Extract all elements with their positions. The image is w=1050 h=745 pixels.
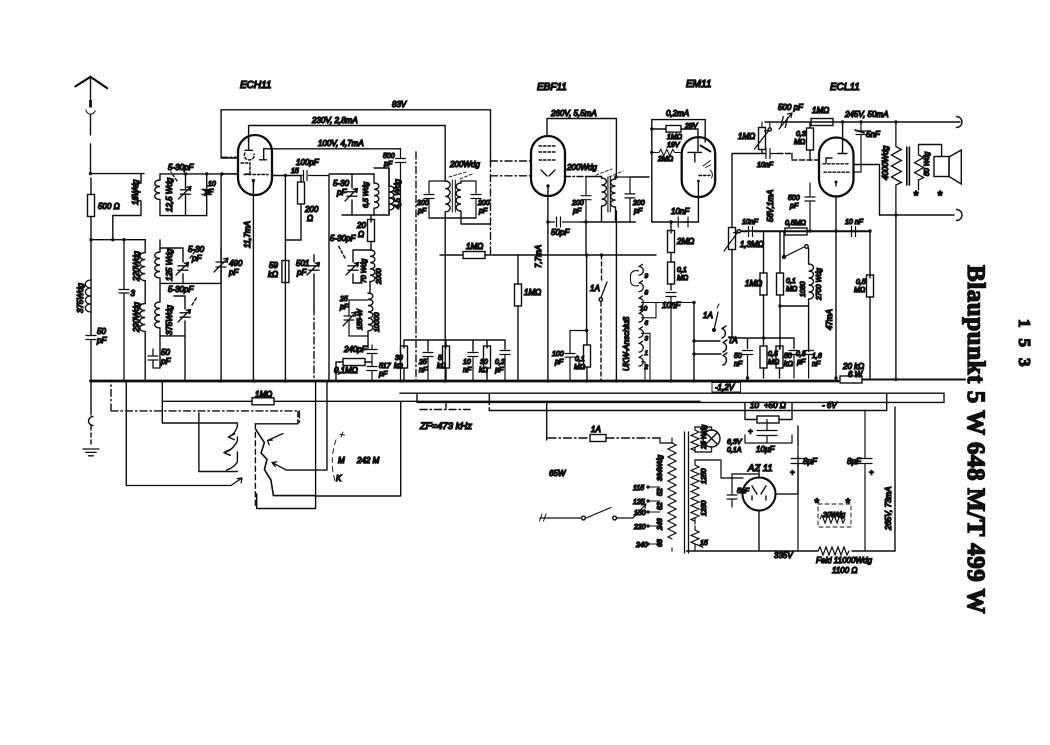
svg-text:1MΩ: 1MΩ bbox=[466, 242, 483, 251]
svg-text:290Wdg: 290Wdg bbox=[132, 302, 141, 333]
junction dot EM bbox=[669, 220, 672, 223]
wire vertical gang-left bbox=[220, 174, 222, 381]
svg-text:EBF11: EBF11 bbox=[537, 82, 567, 93]
wire bottom of input block bbox=[160, 215, 207, 217]
svg-text:Blaupunkt 5 W 648 M/T 499 W: Blaupunkt 5 W 648 M/T 499 W bbox=[962, 265, 989, 614]
svg-text:5-30: 5-30 bbox=[188, 245, 205, 254]
wire avc corner down bbox=[284, 176, 286, 382]
connector pin 8 bbox=[639, 281, 643, 292]
wire ECH11 cathode down bbox=[252, 181, 254, 381]
svg-text:10 nF: 10 nF bbox=[845, 219, 864, 226]
tube EBF11 bbox=[531, 136, 565, 196]
resistor 0.5M bottom bbox=[760, 346, 767, 368]
svg-text:65W: 65W bbox=[549, 469, 567, 478]
wire junction row bbox=[91, 239, 145, 241]
antenna bbox=[75, 77, 107, 174]
svg-text:8µF: 8µF bbox=[847, 457, 862, 466]
svg-text:kΩ: kΩ bbox=[394, 363, 404, 370]
wire volume wiper to grid cap bbox=[732, 154, 766, 228]
svg-text:10nF: 10nF bbox=[671, 207, 690, 216]
capacitor 50pF coupling bbox=[548, 217, 582, 227]
svg-text:pF: pF bbox=[572, 208, 582, 215]
IF transformer 1 bbox=[416, 160, 491, 381]
capacitor 10uF bbox=[745, 420, 792, 444]
resistor 0.1M out bbox=[777, 273, 784, 295]
resistor 20k 6W on bus bbox=[840, 376, 862, 383]
svg-text:230V, 2,8mA: 230V, 2,8mA bbox=[311, 116, 358, 125]
wire B+ top line bbox=[765, 121, 960, 123]
svg-text:ZF=473 kHz: ZF=473 kHz bbox=[419, 421, 472, 432]
svg-text:9: 9 bbox=[645, 273, 649, 280]
connector pin 9 bbox=[639, 264, 643, 275]
capacitor 100pF bbox=[304, 171, 330, 181]
svg-text:83V: 83V bbox=[392, 100, 407, 109]
svg-text:200Wdg: 200Wdg bbox=[566, 163, 597, 172]
wire grid dash ECL bbox=[778, 154, 819, 161]
ECH11 cathode dot bbox=[252, 179, 255, 182]
svg-text:MΩ: MΩ bbox=[854, 287, 866, 294]
svg-text:Ω: Ω bbox=[307, 214, 313, 223]
capacitor 50nF bottom bbox=[743, 351, 753, 379]
svg-text:pF: pF bbox=[191, 254, 202, 263]
osc coil 4.5Wdg bbox=[389, 168, 394, 215]
svg-text:1MΩ: 1MΩ bbox=[255, 390, 272, 399]
svg-text:2: 2 bbox=[644, 364, 649, 371]
svg-text:50: 50 bbox=[161, 348, 170, 357]
wire 100V line bbox=[264, 148, 401, 150]
capacitor 10nF row bbox=[749, 227, 753, 237]
resistor 30k b bbox=[484, 346, 491, 368]
svg-text:260V, 5,5mA: 260V, 5,5mA bbox=[550, 109, 597, 118]
svg-text:µF: µF bbox=[797, 359, 806, 366]
svg-text:pF: pF bbox=[96, 336, 107, 345]
connector pin 3 bbox=[639, 327, 643, 338]
svg-text:UKW-Anschluß: UKW-Anschluß bbox=[622, 316, 631, 371]
svg-text:25: 25 bbox=[339, 296, 348, 303]
capacitor 10nF row bbox=[468, 353, 478, 382]
wire IF2 sec drop bbox=[586, 255, 588, 331]
svg-text:5-30: 5-30 bbox=[333, 179, 350, 188]
resistor 50k bottom bbox=[776, 346, 783, 368]
coil 125Wdg bbox=[155, 240, 160, 283]
secondary HV winding bbox=[691, 460, 699, 524]
svg-text:56V,1mA: 56V,1mA bbox=[766, 190, 775, 222]
resistor 30k bbox=[401, 346, 408, 368]
svg-text:1A: 1A bbox=[591, 425, 601, 434]
svg-text:500: 500 bbox=[788, 195, 800, 202]
resistor 1M EM11 bbox=[666, 126, 681, 133]
svg-text:70 Wdg: 70 Wdg bbox=[361, 259, 368, 283]
svg-text:5-30pF: 5-30pF bbox=[168, 285, 194, 294]
svg-text:0,5MΩ: 0,5MΩ bbox=[785, 220, 807, 227]
svg-text:8µF: 8µF bbox=[803, 457, 818, 466]
capacitor 50pF left bbox=[86, 336, 96, 382]
IF1 core bbox=[452, 180, 455, 212]
capacitor 500pF cathode bbox=[805, 183, 815, 231]
output transformer primary 4000Wdg bbox=[891, 122, 901, 215]
svg-text:5-30pF: 5-30pF bbox=[168, 163, 194, 172]
svg-text:+: + bbox=[790, 468, 795, 477]
svg-text:10: 10 bbox=[208, 181, 216, 188]
connector pin 1 bbox=[639, 341, 643, 352]
resistor 10+50 bbox=[757, 416, 779, 423]
capacitor 100pF agc bbox=[565, 331, 587, 382]
svg-text:nF: nF bbox=[463, 367, 472, 374]
resistor 59k bbox=[282, 261, 289, 283]
svg-text:115: 115 bbox=[633, 485, 644, 492]
svg-text:pF: pF bbox=[204, 189, 214, 196]
junction dot em bbox=[650, 127, 653, 130]
capacitor 200pF IF1 left bbox=[424, 181, 445, 218]
svg-text:7,7mA: 7,7mA bbox=[534, 245, 543, 268]
svg-text:20: 20 bbox=[356, 221, 366, 230]
wire bus down verticals bbox=[126, 381, 162, 486]
svg-text:1MΩ: 1MΩ bbox=[745, 279, 762, 288]
svg-text:100V, 4,7mA: 100V, 4,7mA bbox=[318, 139, 364, 148]
svg-text:1,3MΩ: 1,3MΩ bbox=[740, 240, 764, 249]
EBF11 cathode dot bbox=[546, 184, 549, 187]
wire antenna node to coil L1 bbox=[91, 173, 145, 175]
field coil zigzag inside bbox=[820, 515, 845, 523]
IF2 coil primary bbox=[602, 177, 607, 223]
resistor 20 ohm bbox=[368, 220, 375, 242]
wire row y401 with 1M bbox=[162, 400, 700, 402]
capacitor 25pF bbox=[344, 300, 368, 336]
trimmer band2 bbox=[176, 263, 189, 276]
svg-text:0,2mA: 0,2mA bbox=[666, 109, 689, 118]
tick t bbox=[340, 432, 345, 437]
svg-text:6: 6 bbox=[645, 320, 649, 327]
pilot lamp bbox=[703, 430, 720, 447]
svg-text:200: 200 bbox=[571, 200, 584, 207]
svg-text:nF: nF bbox=[734, 361, 743, 368]
svg-text:2000: 2000 bbox=[376, 268, 383, 285]
EBF11 internals bbox=[539, 146, 557, 192]
tone switch bbox=[784, 247, 805, 258]
svg-text:pF: pF bbox=[339, 304, 349, 311]
wire 230V line bbox=[249, 126, 446, 182]
svg-text:15: 15 bbox=[700, 540, 708, 547]
connector TA 2 bbox=[723, 340, 727, 352]
band switch wafer right arm bbox=[256, 430, 273, 496]
junction dots top bbox=[841, 120, 844, 123]
svg-text:245V, 50mA: 245V, 50mA bbox=[844, 110, 888, 119]
svg-text:1MΩ: 1MΩ bbox=[524, 288, 541, 297]
svg-text:30: 30 bbox=[480, 359, 488, 366]
wire left vertical below bus to ground bbox=[90, 381, 92, 415]
node A dot bbox=[89, 172, 92, 175]
svg-text:10: 10 bbox=[463, 359, 471, 366]
svg-text:pF: pF bbox=[296, 268, 307, 277]
svg-text:47mA: 47mA bbox=[825, 309, 834, 330]
wire pin2 down bbox=[642, 362, 646, 381]
svg-text:11,7mA: 11,7mA bbox=[243, 221, 252, 248]
svg-text:500 pF: 500 pF bbox=[778, 103, 804, 112]
capacitor 500pF tone bbox=[781, 117, 788, 128]
osc coil 70Wdg bbox=[370, 250, 375, 286]
IF2 coil secondary bbox=[611, 177, 616, 222]
wire osc top bbox=[329, 173, 374, 175]
resistor 2M vert bbox=[668, 231, 675, 253]
svg-text:200: 200 bbox=[477, 200, 490, 207]
svg-text:1260: 1260 bbox=[701, 500, 708, 516]
svg-text:0,1: 0,1 bbox=[786, 278, 796, 285]
transformer primary winding bbox=[668, 438, 676, 551]
IF2 bottom wire bbox=[582, 177, 636, 223]
wire y231 row bbox=[741, 231, 871, 233]
wire vertical x694 bbox=[693, 303, 695, 382]
wire IF2 grid right bbox=[630, 176, 649, 178]
fuse 1A bbox=[590, 435, 606, 442]
resistor 0.1M osc bbox=[343, 359, 365, 366]
svg-text:MΩ: MΩ bbox=[794, 139, 806, 146]
secondary heater winding top bbox=[691, 427, 699, 452]
wire HV to AZ bbox=[695, 460, 743, 478]
coil 220Wdg bbox=[140, 240, 145, 304]
svg-text:- 6V: - 6V bbox=[822, 401, 837, 410]
connector pin 10 bbox=[639, 296, 643, 307]
svg-text:ECL11: ECL11 bbox=[830, 82, 860, 93]
connector pin 2 bbox=[639, 355, 643, 366]
svg-text:5-30pF: 5-30pF bbox=[330, 234, 356, 243]
wire ECL cathode down bbox=[835, 197, 837, 379]
svg-text:1: 1 bbox=[645, 350, 649, 357]
svg-text:0,5: 0,5 bbox=[856, 279, 866, 286]
svg-text:82: 82 bbox=[657, 502, 664, 510]
AZ11 internals bbox=[752, 474, 766, 500]
band switch wafer axis bbox=[254, 424, 256, 508]
capacitor 8uF first bbox=[791, 446, 805, 551]
tone coil 2700Wdg bbox=[809, 249, 814, 352]
mains switch bbox=[540, 508, 633, 519]
svg-text:5nF: 5nF bbox=[737, 488, 750, 495]
svg-text:4000Wdg: 4000Wdg bbox=[881, 145, 890, 180]
output terminal bottom bbox=[957, 210, 963, 221]
wire grid dash EBF bbox=[491, 160, 532, 162]
IF2 core bbox=[608, 177, 610, 212]
wire row top bbox=[404, 340, 505, 351]
wire top node line bbox=[160, 173, 238, 175]
resistor 0.3M bbox=[807, 128, 814, 150]
wire speaker bottom line bbox=[880, 214, 955, 216]
wire grid into tube bbox=[222, 173, 238, 175]
svg-text:10000: 10000 bbox=[374, 312, 381, 332]
IF1 arrows bbox=[449, 172, 472, 179]
wire y231 row bbox=[741, 230, 870, 232]
wire band3 bottom to bus bbox=[160, 336, 185, 381]
svg-text:pF: pF bbox=[789, 203, 799, 210]
capacitor 0.5uF bottom bbox=[789, 351, 799, 379]
svg-text:50pF: 50pF bbox=[551, 228, 570, 237]
capacitor 10nF EM bbox=[678, 217, 688, 227]
svg-text:MΩ: MΩ bbox=[677, 275, 689, 282]
svg-text:1,6: 1,6 bbox=[812, 353, 822, 360]
bus junction dots bbox=[89, 379, 92, 382]
wire gang dash line 2 bbox=[313, 308, 315, 381]
wire TA row2 bbox=[694, 353, 721, 355]
wire right side drop bbox=[894, 407, 896, 551]
capacitor 25nF bbox=[423, 353, 433, 382]
wire osc mid bbox=[342, 215, 389, 222]
resistor 500 ohm bbox=[88, 195, 95, 217]
wire volume bottom bbox=[761, 150, 763, 154]
svg-text:10nF: 10nF bbox=[742, 219, 759, 226]
svg-text:*: * bbox=[814, 496, 819, 510]
svg-text:pF: pF bbox=[383, 161, 393, 168]
wire EM11 cathode bbox=[697, 196, 699, 222]
wire row y409 bbox=[489, 393, 886, 410]
svg-text:10µF: 10µF bbox=[756, 445, 776, 454]
connector pin 6 bbox=[639, 311, 643, 322]
svg-text:25: 25 bbox=[418, 359, 427, 366]
svg-text:20Wdg: 20Wdg bbox=[822, 512, 845, 519]
svg-text:15: 15 bbox=[291, 168, 299, 175]
svg-text:2MΩ: 2MΩ bbox=[676, 237, 694, 246]
wire first cap top bbox=[797, 426, 799, 446]
tap selector bbox=[633, 504, 646, 518]
wafer arrow mid bbox=[272, 462, 286, 470]
wire fuse to transformer bbox=[660, 438, 672, 443]
svg-text:pF: pF bbox=[336, 188, 347, 197]
IF transformer 2 bbox=[546, 163, 649, 255]
svg-text:50: 50 bbox=[97, 327, 106, 336]
svg-text:pF: pF bbox=[160, 357, 171, 366]
wire IF2 long vertical bbox=[615, 211, 617, 381]
svg-text:100pF: 100pF bbox=[296, 158, 320, 167]
IF1 coil secondary bbox=[456, 181, 461, 218]
capacitor 10pF bbox=[202, 174, 212, 216]
svg-text:1A: 1A bbox=[590, 284, 600, 293]
IF2 capacitor right 200pF bbox=[616, 177, 635, 222]
svg-text:19V: 19V bbox=[667, 142, 681, 149]
svg-text:220Wdg: 220Wdg bbox=[132, 251, 141, 282]
wire bottom row feed bbox=[732, 250, 794, 349]
capacitor 5nF az bbox=[727, 487, 737, 507]
svg-text:MΩ: MΩ bbox=[574, 364, 586, 371]
junction dots x694 bbox=[692, 301, 695, 304]
capacitor 8uF second bbox=[858, 410, 872, 551]
svg-text:pF: pF bbox=[228, 268, 239, 277]
wire 0.5M right vert bbox=[869, 232, 871, 279]
junction dots row bbox=[762, 336, 765, 339]
wire EBF cathode down bbox=[547, 192, 549, 381]
svg-text:Ω: Ω bbox=[358, 230, 364, 239]
wire row dashdot y411 bbox=[111, 381, 299, 423]
trimmer C bbox=[179, 187, 192, 200]
svg-text:pF: pF bbox=[633, 208, 643, 215]
svg-text:265V, 73mA: 265V, 73mA bbox=[884, 487, 893, 531]
svg-text:pF: pF bbox=[478, 208, 488, 215]
wire IF1 to EBF grid bbox=[491, 175, 532, 177]
resistor 1M out bbox=[760, 273, 767, 295]
wire wafer bottom bbox=[273, 495, 314, 497]
capacitor 3nF bbox=[119, 240, 129, 381]
svg-text:155-W: 155-W bbox=[357, 308, 364, 330]
capacitor 0.1uF bbox=[500, 351, 510, 382]
svg-text:0,1A: 0,1A bbox=[727, 447, 742, 454]
trimmer band3 bbox=[178, 310, 191, 323]
svg-text:0,2: 0,2 bbox=[495, 359, 505, 366]
wire pin6 right bbox=[642, 303, 657, 318]
diode wire EBF bbox=[565, 176, 587, 178]
svg-text:MΩ: MΩ bbox=[786, 286, 798, 293]
wire 83V loop bbox=[221, 110, 490, 160]
resistor 2M EM11 bbox=[652, 149, 681, 155]
bottom row components left of EBF11 bbox=[394, 340, 510, 381]
band switch box outline bbox=[162, 381, 400, 509]
loudspeaker bbox=[934, 150, 961, 184]
wire AZ cathode right bbox=[776, 456, 799, 494]
svg-text:pF: pF bbox=[554, 359, 564, 366]
band switch wafer left bbox=[224, 424, 238, 470]
wire bottom power line bbox=[687, 511, 896, 551]
svg-text:125 Wdg: 125 Wdg bbox=[165, 248, 174, 281]
capacitor 1.6nF bottom bbox=[804, 351, 814, 379]
IF2 capacitor left 200pF bbox=[581, 177, 591, 223]
oscillator trimmer 5-30 bbox=[345, 189, 358, 202]
svg-text:12,5 Wdg: 12,5 Wdg bbox=[165, 177, 174, 212]
switch 1A TA bbox=[714, 312, 718, 330]
svg-text:10: 10 bbox=[750, 401, 759, 410]
junction dots agc bbox=[585, 253, 588, 256]
output terminal top bbox=[957, 117, 963, 128]
svg-text:0,3: 0,3 bbox=[796, 131, 806, 138]
IF1 bottom wire bbox=[429, 218, 491, 381]
wire speaker top bbox=[919, 145, 942, 157]
svg-text:68: 68 bbox=[657, 539, 664, 547]
wire row y393 bbox=[400, 393, 944, 402]
svg-text:6 W: 6 W bbox=[848, 370, 864, 379]
svg-text:6,3V: 6,3V bbox=[727, 439, 743, 446]
svg-text:0,1: 0,1 bbox=[677, 267, 687, 274]
svg-text:50: 50 bbox=[734, 353, 742, 360]
svg-text:-1,2V: -1,2V bbox=[715, 383, 735, 392]
svg-text:K: K bbox=[336, 474, 342, 483]
svg-text:+: + bbox=[748, 427, 753, 436]
svg-text:1080: 1080 bbox=[800, 281, 807, 297]
resistor 0.1M agc bbox=[584, 345, 591, 367]
svg-text:2700 Wdg: 2700 Wdg bbox=[816, 268, 823, 301]
svg-text:3: 3 bbox=[131, 289, 136, 298]
wire pin9 to pin8 loop bbox=[631, 271, 639, 286]
wire AZ11 plate top bbox=[732, 466, 759, 487]
svg-text:kΩ: kΩ bbox=[437, 363, 447, 370]
wire right vertical main bbox=[895, 215, 897, 378]
svg-text:30: 30 bbox=[395, 355, 403, 362]
svg-text:µF: µF bbox=[495, 367, 504, 374]
wire osc grid stub bbox=[222, 156, 239, 158]
svg-text:+: + bbox=[869, 468, 874, 477]
wire row y402 bbox=[545, 401, 944, 403]
secondary heater winding bottom bbox=[691, 526, 703, 551]
connector TA 3 bbox=[723, 353, 727, 365]
svg-text:59: 59 bbox=[269, 261, 278, 270]
dashed arc switch bbox=[332, 440, 336, 484]
svg-text:1A: 1A bbox=[703, 311, 713, 320]
junction dots IF2 bbox=[584, 220, 587, 223]
svg-text:4,5 Wdg: 4,5 Wdg bbox=[393, 179, 402, 209]
svg-text:ECH11: ECH11 bbox=[240, 80, 272, 91]
svg-text:Feld 11000Wdg: Feld 11000Wdg bbox=[816, 556, 872, 565]
svg-text:1MΩ: 1MΩ bbox=[738, 132, 755, 141]
osc coil 155 bbox=[368, 293, 373, 348]
wire AVC dash x490 bbox=[490, 160, 492, 255]
svg-text:16Wdg: 16Wdg bbox=[131, 179, 140, 205]
svg-text:5: 5 bbox=[438, 355, 442, 362]
svg-text:0,1MΩ: 0,1MΩ bbox=[334, 366, 358, 375]
svg-text:200: 200 bbox=[416, 200, 429, 207]
osc trimmer 2 bbox=[346, 263, 359, 276]
